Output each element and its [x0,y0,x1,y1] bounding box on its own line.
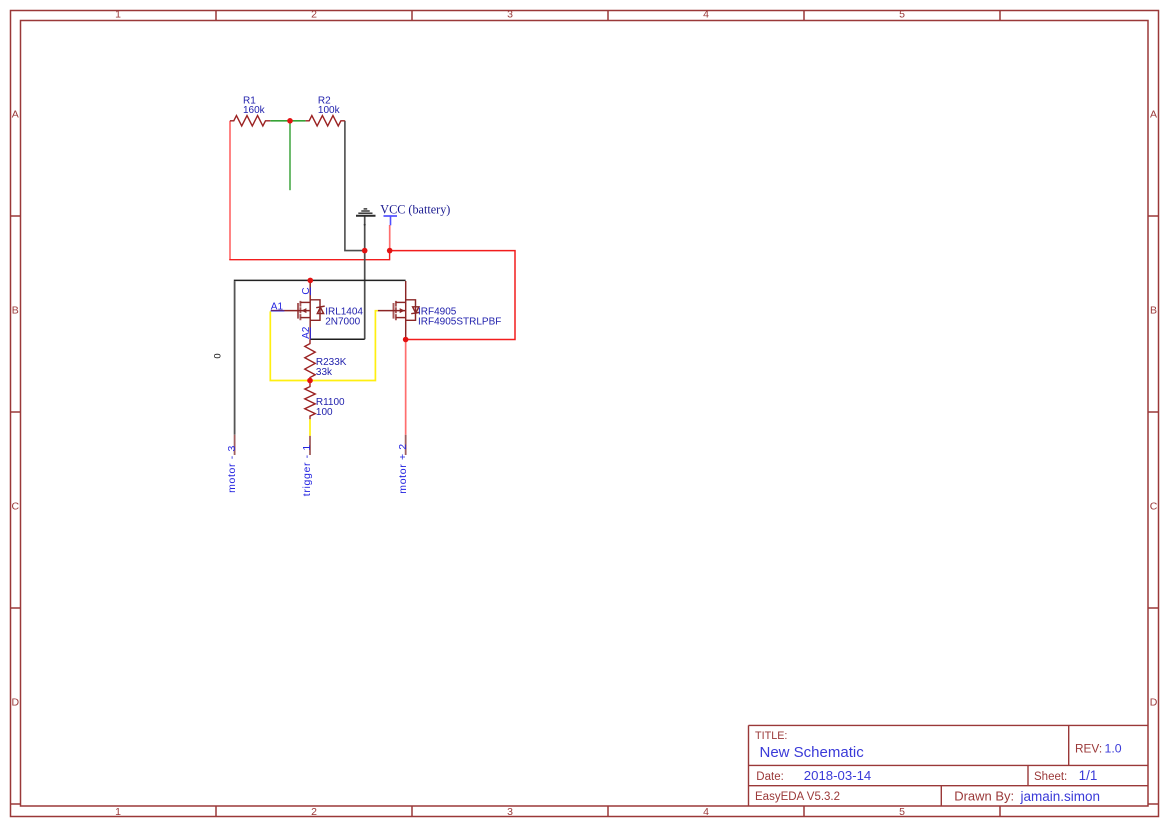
svg-text:2N7000: 2N7000 [325,317,360,328]
svg-text:1: 1 [115,9,121,21]
svg-text:1: 1 [115,806,121,818]
svg-text:B: B [12,305,19,317]
svg-text:3: 3 [507,806,513,818]
svg-text:motor - 3: motor - 3 [226,445,238,493]
svg-text:1.0: 1.0 [1105,742,1122,756]
svg-text:jamain.simon: jamain.simon [1020,789,1101,804]
svg-text:D: D [1150,697,1158,709]
svg-text:0: 0 [213,353,224,358]
svg-text:B: B [1150,305,1157,317]
svg-text:Drawn By:: Drawn By: [954,789,1014,804]
svg-text:motor + 2: motor + 2 [397,443,409,494]
svg-text:4: 4 [703,9,709,21]
svg-text:160k: 160k [243,105,266,116]
svg-text:IRF4905: IRF4905 [418,306,457,317]
svg-text:3: 3 [507,9,513,21]
svg-text:IRF4905STRLPBF: IRF4905STRLPBF [418,317,501,328]
svg-text:1/1: 1/1 [1079,768,1098,783]
svg-text:VCC (battery): VCC (battery) [380,202,450,216]
svg-text:33k: 33k [316,367,333,378]
svg-text:EasyEDA V5.3.2: EasyEDA V5.3.2 [755,791,840,803]
svg-text:5: 5 [899,806,905,818]
svg-text:A: A [12,109,19,121]
svg-text:trigger - 1: trigger - 1 [301,444,313,496]
svg-text:Sheet:: Sheet: [1034,771,1067,783]
svg-text:2: 2 [311,9,317,21]
svg-text:5: 5 [899,9,905,21]
svg-text:Date:: Date: [756,771,784,783]
svg-text:TITLE:: TITLE: [755,730,787,742]
svg-text:C: C [1150,501,1158,513]
svg-text:100k: 100k [318,105,341,116]
svg-text:100: 100 [316,407,333,418]
svg-text:C: C [12,501,20,513]
svg-text:IRL1404: IRL1404 [325,306,363,317]
svg-text:2018-03-14: 2018-03-14 [804,768,871,783]
svg-text:REV:: REV: [1075,742,1102,756]
svg-text:New Schematic: New Schematic [760,744,865,761]
svg-text:A: A [1150,109,1157,121]
svg-text:2: 2 [311,806,317,818]
svg-text:4: 4 [703,806,709,818]
svg-text:D: D [12,697,20,709]
